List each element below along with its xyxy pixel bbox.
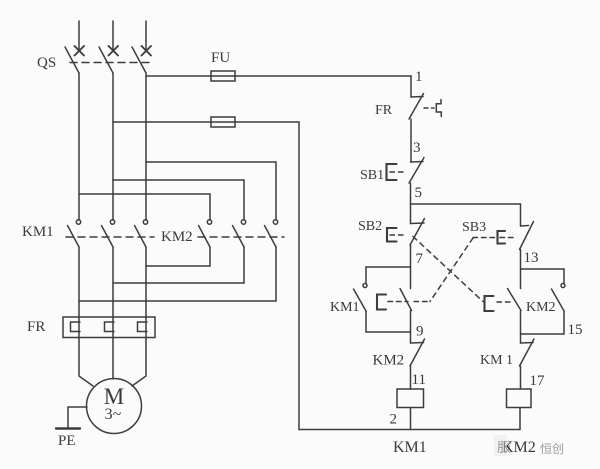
SB2 operator E: [387, 228, 397, 242]
wire below KM1 pole3: [145, 247, 147, 317]
watermark smudge over coil KM2 label: [494, 435, 507, 456]
wire supply line L1: [78, 21, 80, 50]
fuse FU lower body: [211, 117, 235, 127]
svg-text:17: 17: [530, 373, 546, 389]
wire FR to motor W: [132, 338, 146, 387]
coil KM1: [397, 389, 424, 408]
FR trip linkage dashed: [424, 107, 434, 109]
SB1 operator E: [387, 164, 397, 180]
svg-text:KM 1: KM 1: [480, 353, 513, 368]
wire node 3 segment: [410, 119, 412, 162]
svg-text:SB2: SB2: [358, 219, 382, 234]
node L2 incoming terminal X: [109, 46, 119, 56]
contactor KM1 NC interlock contact: [520, 339, 535, 366]
SB2 operator linkage dashed: [390, 234, 407, 236]
svg-text:3~: 3~: [105, 406, 122, 423]
svg-text:SB1: SB1: [360, 168, 384, 183]
svg-text:服: 服: [497, 441, 511, 456]
wire FR to motor V: [112, 338, 114, 380]
svg-text:15: 15: [568, 322, 583, 338]
contactor KM2 main contact 1: [199, 220, 212, 247]
svg-text:FR: FR: [27, 319, 45, 335]
FR thermal actuator symbol: [436, 100, 441, 117]
wire supply line L2: [112, 21, 114, 50]
SB3 operator linkage dashed right: [500, 237, 517, 239]
svg-text:9: 9: [416, 324, 424, 340]
motor M 3~: [87, 379, 142, 434]
coil KM2: [507, 389, 532, 408]
pushbutton SB1 NC stop: [409, 158, 424, 184]
svg-text:QS: QS: [37, 55, 56, 71]
pushbutton SB2 NC interlock (right): [508, 289, 522, 311]
wire below KM1 pole1: [78, 247, 80, 317]
dashed cross linkage SB3 to left NC: [430, 238, 473, 302]
wire branch L3 to KM2 pole 3: [146, 162, 276, 220]
svg-text:3: 3: [413, 140, 421, 156]
svg-text:KM2: KM2: [526, 300, 556, 315]
svg-text:5: 5: [415, 185, 423, 201]
contactor KM2 auxiliary NO contact: [552, 284, 566, 312]
FR heater element 2: [105, 317, 115, 338]
svg-text:KM1: KM1: [22, 224, 54, 240]
wire KM2 pole1 output crossover: [146, 247, 210, 266]
SB1 operator linkage dashed: [390, 171, 407, 173]
svg-text:FR: FR: [375, 103, 393, 118]
svg-text:SB3: SB3: [462, 220, 486, 235]
wire KM1 self-latch loop: [366, 267, 411, 283]
wire node 1 drop: [410, 76, 412, 97]
wire KM2 pole2 output: [113, 247, 244, 283]
wire below KM1 pole2: [112, 247, 114, 317]
wire phase A vertical: [78, 73, 80, 220]
contactor KM2 main contact 3: [265, 220, 278, 247]
wire control feed from L2 to fuse FU lower: [113, 121, 299, 123]
wire motor frame to earth: [68, 407, 87, 428]
contactor KM1 auxiliary NO contact: [354, 284, 368, 312]
contactor KM1 main contact 3: [135, 220, 148, 247]
wire FR to motor U: [79, 338, 93, 387]
wire node 15 segment: [520, 311, 522, 344]
SB2 NC operator E: [485, 296, 494, 311]
wire control feed from L3 to fuse FU upper: [146, 75, 411, 77]
svg-text:2: 2: [390, 412, 398, 428]
wire phase C vertical: [145, 73, 147, 220]
svg-text:恒创: 恒创: [540, 442, 564, 456]
svg-text:KM2: KM2: [373, 353, 405, 369]
SB3 NC operator E: [377, 295, 386, 310]
svg-text:1: 1: [415, 69, 423, 85]
contactor KM1 main contact 2: [102, 220, 115, 247]
svg-text:FU: FU: [211, 50, 230, 66]
contactor KM2 NC interlock contact: [410, 339, 425, 366]
wire phase B vertical: [112, 73, 114, 220]
wire node 11 segment: [410, 366, 412, 389]
wire node 17 segment: [520, 366, 522, 389]
wire node 5 branch to SB3: [411, 204, 521, 226]
svg-text:KM2: KM2: [161, 229, 193, 245]
svg-text:11: 11: [412, 372, 426, 388]
pushbutton SB2 NO start-forward: [410, 219, 425, 246]
ground PE bar: [56, 427, 80, 429]
pushbutton SB3 NC interlock (left): [400, 289, 412, 311]
dashed cross linkage SB2 to right NC: [413, 237, 483, 302]
node L1 incoming terminal X: [75, 46, 85, 56]
FR heater element 1: [71, 317, 81, 338]
disconnect switch QS pole 1 blade: [65, 47, 79, 73]
SB3 NC operator linkage dashed: [388, 301, 408, 303]
SB3 operator E: [498, 231, 506, 244]
svg-text:PE: PE: [58, 433, 76, 449]
wire node 7 segment: [410, 245, 412, 289]
pushbutton SB3 NO start-reverse: [520, 222, 534, 250]
wire branch L2 to KM2 pole 2: [113, 180, 244, 220]
svg-text:KM1: KM1: [393, 439, 427, 456]
KM2 main linkage dashed: [198, 236, 284, 238]
wire node 5 segment: [410, 183, 412, 224]
SB2 NC operator linkage dashed: [497, 301, 511, 303]
contactor KM1 main contact 1: [68, 220, 81, 247]
QS mechanical linkage dashed: [70, 62, 152, 64]
wire supply line L3: [145, 21, 147, 50]
wire control right-side return: [298, 122, 300, 430]
wire coil KM2 to bottom return: [519, 408, 521, 430]
svg-text:KM1: KM1: [330, 300, 360, 315]
wire bottom return node 2: [299, 429, 520, 431]
svg-text:13: 13: [524, 250, 539, 266]
SB3 operator linkage dashed left: [473, 237, 495, 239]
wire KM2 self-latch loop: [521, 269, 565, 283]
node L3 incoming terminal X: [142, 46, 152, 56]
contactor KM2 main contact 2: [233, 220, 246, 247]
KM1 main linkage dashed: [66, 236, 154, 238]
wire branch L1 to KM2 pole 1: [79, 194, 210, 220]
thermal relay FR box: [63, 317, 155, 338]
svg-text:7: 7: [416, 251, 424, 267]
fuse FU upper body: [211, 71, 235, 81]
disconnect switch QS pole 3 blade: [132, 47, 146, 73]
wire KM2 pole3 output crossover: [79, 247, 276, 301]
wire coil KM1 to node 2: [410, 408, 412, 430]
dashed linkage right of left NC blade: [414, 301, 430, 303]
disconnect switch QS pole 2 blade: [99, 47, 113, 73]
FR heater element 3: [138, 317, 148, 338]
wire node 9 segment: [410, 311, 412, 344]
wire node 13 segment: [520, 250, 522, 289]
FR NC contact in control circuit: [409, 94, 424, 120]
